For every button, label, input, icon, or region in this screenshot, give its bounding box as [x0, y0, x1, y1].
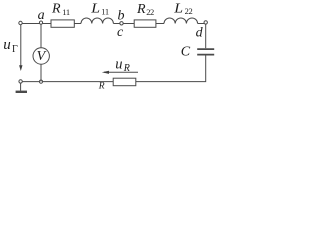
svg-text:b: b — [118, 9, 125, 24]
inductor L22 — [164, 18, 198, 23]
resistor R11 — [51, 20, 74, 27]
wire L11 to node b — [113, 23, 119, 25]
svg-text:R: R — [123, 63, 130, 74]
svg-text:a: a — [38, 8, 45, 23]
node d terminal circle — [204, 21, 207, 24]
resistor R (bottom) — [113, 78, 136, 86]
wire top-left to R11 — [22, 23, 51, 25]
u_g arrowhead — [19, 65, 22, 71]
wire voltmeter to bottom wire — [40, 64, 42, 81]
resistor R22 — [134, 20, 156, 27]
svg-text:c: c — [117, 25, 124, 40]
svg-text:R: R — [98, 82, 105, 92]
wire node d down to capacitor — [205, 24, 207, 48]
ground bar — [16, 91, 27, 93]
terminal (bottom-left input) — [19, 80, 22, 83]
wire node a down to voltmeter — [40, 24, 42, 48]
svg-text:Γ: Γ — [12, 44, 18, 55]
svg-text:L: L — [90, 1, 100, 16]
u_R arrow shaft — [104, 71, 138, 73]
wire node b to R22 — [123, 23, 134, 25]
svg-text:22: 22 — [185, 6, 193, 16]
svg-text:L: L — [173, 1, 183, 16]
terminal (top-left input) — [19, 21, 22, 24]
wire capacitor to bottom-right corner — [136, 56, 206, 82]
wire R22 to L22 — [156, 23, 164, 25]
svg-text:d: d — [196, 25, 204, 40]
u_g arrow shaft — [20, 25, 22, 66]
svg-text:u: u — [3, 37, 11, 53]
svg-text:11: 11 — [62, 7, 70, 17]
capacitor C top plate — [197, 48, 214, 50]
node (junction circle, bottom of V branch) — [39, 80, 42, 83]
svg-text:u: u — [115, 56, 122, 72]
svg-text:V: V — [37, 49, 47, 64]
ground stub — [20, 83, 22, 91]
svg-text:22: 22 — [146, 7, 154, 17]
voltmeter circle U1 — [33, 48, 49, 64]
svg-text:R: R — [51, 2, 61, 17]
inductor L11 — [81, 18, 113, 24]
svg-text:C: C — [181, 45, 191, 60]
wire L22 to node d — [198, 23, 204, 25]
svg-text:R: R — [136, 2, 146, 17]
bottom wire left segment — [22, 81, 113, 83]
capacitor C bottom plate — [197, 54, 214, 56]
node b/c terminal circle — [120, 22, 123, 25]
wire R11 to L11 — [74, 23, 81, 25]
u_R arrowhead — [102, 71, 109, 74]
svg-text:11: 11 — [101, 7, 109, 17]
node a (junction circle) — [39, 21, 42, 24]
